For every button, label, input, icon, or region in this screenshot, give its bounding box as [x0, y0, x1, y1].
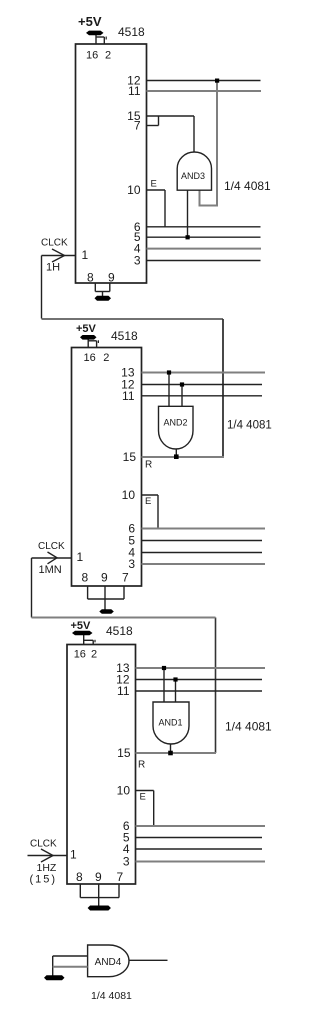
svg-text:+5V: +5V: [76, 323, 97, 335]
svg-text:2: 2: [105, 50, 111, 62]
svg-text:R: R: [138, 760, 145, 771]
svg-text:11: 11: [117, 684, 130, 698]
svg-text:1/4 4081: 1/4 4081: [91, 990, 132, 1002]
svg-text:2: 2: [91, 649, 97, 661]
svg-text:1/4 4081: 1/4 4081: [227, 420, 272, 432]
svg-text:E: E: [140, 792, 146, 803]
svg-text:10: 10: [127, 183, 141, 197]
svg-text:+5V: +5V: [78, 14, 102, 29]
svg-text:1MN: 1MN: [39, 564, 62, 576]
svg-text:+5V: +5V: [71, 620, 92, 632]
svg-text:10: 10: [117, 784, 131, 798]
svg-text:1/4 4081: 1/4 4081: [224, 179, 271, 193]
svg-text:1/4 4081: 1/4 4081: [225, 720, 272, 734]
svg-text:8: 8: [82, 571, 89, 585]
svg-text:1: 1: [77, 550, 84, 564]
svg-text:AND1: AND1: [158, 718, 182, 728]
svg-text:AND3: AND3: [181, 171, 205, 181]
svg-text:1: 1: [82, 248, 89, 262]
svg-text:9: 9: [108, 271, 115, 285]
svg-text:8: 8: [76, 870, 83, 884]
svg-text:9: 9: [101, 571, 108, 585]
svg-text:E: E: [151, 179, 157, 190]
svg-text:15: 15: [117, 746, 131, 760]
svg-text:7: 7: [134, 119, 141, 133]
svg-text:8: 8: [87, 271, 94, 285]
svg-text:E: E: [145, 496, 151, 507]
svg-text:11: 11: [122, 389, 135, 403]
svg-text:4518: 4518: [118, 25, 145, 39]
svg-text:15: 15: [123, 450, 137, 464]
svg-text:(15): (15): [30, 874, 58, 886]
svg-text:R: R: [145, 460, 152, 471]
svg-text:11: 11: [128, 84, 141, 98]
svg-text:16: 16: [86, 50, 98, 62]
svg-text:3: 3: [134, 254, 141, 268]
svg-text:7: 7: [117, 870, 124, 884]
svg-text:16: 16: [74, 649, 86, 661]
svg-text:9: 9: [95, 870, 102, 884]
svg-text:4518: 4518: [111, 329, 138, 343]
svg-text:10: 10: [122, 488, 136, 502]
svg-text:CLCK: CLCK: [30, 839, 57, 850]
svg-text:1: 1: [70, 848, 77, 862]
svg-text:1HZ: 1HZ: [37, 862, 57, 874]
svg-text:16: 16: [84, 352, 96, 364]
svg-text:CLCK: CLCK: [38, 541, 65, 552]
svg-text:1H: 1H: [46, 262, 60, 274]
svg-text:AND2: AND2: [163, 418, 187, 428]
svg-text:3: 3: [123, 855, 130, 869]
svg-text:2: 2: [103, 352, 109, 364]
svg-text:4518: 4518: [106, 624, 133, 638]
svg-text:AND4: AND4: [95, 957, 122, 968]
svg-text:7: 7: [122, 571, 129, 585]
svg-text:3: 3: [128, 557, 135, 571]
svg-text:CLCK: CLCK: [41, 238, 68, 249]
